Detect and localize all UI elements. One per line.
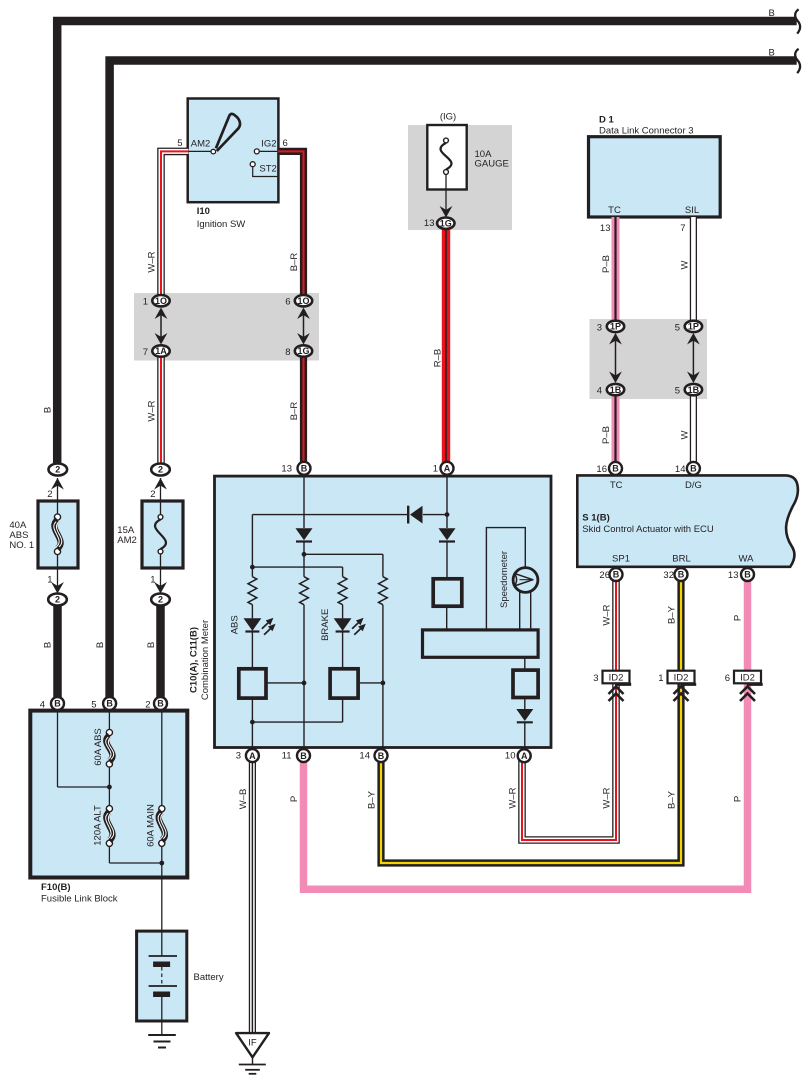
svg-text:ID2: ID2 xyxy=(609,673,624,684)
svg-text:P: P xyxy=(289,796,300,802)
svg-text:W: W xyxy=(679,430,690,439)
svg-text:AM2: AM2 xyxy=(191,139,211,150)
svg-text:W–R: W–R xyxy=(508,787,519,808)
svg-text:Fusible Link Block: Fusible Link Block xyxy=(41,894,118,905)
svg-text:32: 32 xyxy=(663,570,674,581)
svg-text:4: 4 xyxy=(40,700,45,711)
svg-text:B–R: B–R xyxy=(289,402,300,421)
svg-text:2: 2 xyxy=(55,465,60,475)
svg-text:B: B xyxy=(744,570,751,580)
svg-text:A: A xyxy=(249,751,256,761)
svg-text:I10: I10 xyxy=(197,206,210,217)
svg-text:2: 2 xyxy=(55,595,60,605)
svg-text:Data Link Connector 3: Data Link Connector 3 xyxy=(599,126,694,137)
svg-text:1G: 1G xyxy=(297,346,309,356)
svg-text:2: 2 xyxy=(158,595,163,605)
svg-text:B: B xyxy=(106,699,113,709)
svg-text:B–Y: B–Y xyxy=(367,790,378,809)
svg-text:B: B xyxy=(146,642,157,648)
svg-text:B: B xyxy=(301,464,308,474)
svg-text:1B: 1B xyxy=(610,385,622,395)
svg-text:Combination Meter: Combination Meter xyxy=(200,620,211,700)
svg-text:2: 2 xyxy=(145,700,150,711)
svg-text:2: 2 xyxy=(158,465,163,475)
svg-text:C10(A), C11(B): C10(A), C11(B) xyxy=(189,627,200,693)
svg-text:1: 1 xyxy=(433,464,438,475)
svg-text:B: B xyxy=(95,642,106,648)
svg-text:W–R: W–R xyxy=(602,604,613,625)
svg-text:6: 6 xyxy=(283,138,288,149)
svg-text:7: 7 xyxy=(680,223,685,234)
svg-text:1G: 1G xyxy=(440,218,452,228)
svg-text:SIL: SIL xyxy=(685,205,699,216)
svg-text:3: 3 xyxy=(593,673,598,684)
svg-text:B–Y: B–Y xyxy=(667,605,678,624)
svg-text:W–R: W–R xyxy=(147,400,158,421)
svg-text:1P: 1P xyxy=(610,322,621,332)
svg-text:TC: TC xyxy=(608,205,621,216)
svg-text:10: 10 xyxy=(505,751,516,762)
svg-text:R–B: R–B xyxy=(433,349,444,367)
svg-text:BRL: BRL xyxy=(672,554,690,565)
svg-text:Battery: Battery xyxy=(194,972,224,983)
svg-text:B: B xyxy=(769,48,775,59)
svg-text:13: 13 xyxy=(424,218,435,229)
svg-text:B: B xyxy=(678,570,685,580)
svg-text:P: P xyxy=(733,796,744,802)
svg-text:7: 7 xyxy=(143,347,148,358)
svg-text:1: 1 xyxy=(658,673,663,684)
svg-text:TC: TC xyxy=(610,480,623,491)
svg-text:5: 5 xyxy=(675,322,680,333)
svg-text:13: 13 xyxy=(600,223,611,234)
svg-text:IG2: IG2 xyxy=(261,139,276,150)
svg-text:B: B xyxy=(690,464,697,474)
svg-text:B: B xyxy=(378,751,385,761)
svg-text:ID2: ID2 xyxy=(674,673,689,684)
svg-text:60A MAIN: 60A MAIN xyxy=(145,804,156,847)
svg-text:60A ABS: 60A ABS xyxy=(93,728,104,766)
svg-text:P–B: P–B xyxy=(601,255,612,273)
svg-text:13: 13 xyxy=(281,464,292,475)
svg-text:Skid Control Actuator with ECU: Skid Control Actuator with ECU xyxy=(582,524,714,535)
svg-text:S 1(B): S 1(B) xyxy=(582,513,609,524)
svg-text:5: 5 xyxy=(91,700,96,711)
svg-text:AM2: AM2 xyxy=(117,535,137,546)
svg-text:5: 5 xyxy=(177,138,182,149)
svg-text:ABS: ABS xyxy=(230,615,241,634)
svg-text:B: B xyxy=(43,407,54,413)
svg-text:B: B xyxy=(769,8,775,19)
svg-text:120A ALT: 120A ALT xyxy=(92,805,103,846)
svg-text:6: 6 xyxy=(725,673,730,684)
svg-text:Speedometer: Speedometer xyxy=(499,551,510,608)
svg-text:2: 2 xyxy=(47,489,52,500)
svg-text:13: 13 xyxy=(728,570,739,581)
svg-text:B: B xyxy=(54,699,61,709)
svg-text:(IG): (IG) xyxy=(440,112,456,123)
svg-text:1A: 1A xyxy=(155,346,167,356)
svg-text:W–R: W–R xyxy=(602,787,613,808)
svg-text:1: 1 xyxy=(150,575,155,586)
svg-text:3: 3 xyxy=(236,751,241,762)
svg-text:6: 6 xyxy=(285,297,290,308)
svg-text:P: P xyxy=(733,615,744,621)
svg-text:1B: 1B xyxy=(688,385,700,395)
svg-text:B–Y: B–Y xyxy=(667,790,678,809)
svg-text:8: 8 xyxy=(285,347,290,358)
svg-text:ST2: ST2 xyxy=(259,164,276,175)
svg-text:1: 1 xyxy=(143,297,148,308)
svg-text:NO. 1: NO. 1 xyxy=(9,540,34,551)
svg-text:11: 11 xyxy=(282,751,292,762)
svg-text:26: 26 xyxy=(599,570,610,581)
svg-text:4: 4 xyxy=(597,386,602,397)
svg-text:W–B: W–B xyxy=(238,789,249,810)
svg-text:B–R: B–R xyxy=(289,253,300,272)
svg-text:A: A xyxy=(521,751,528,761)
svg-text:P–B: P–B xyxy=(601,426,612,444)
svg-text:Ignition SW: Ignition SW xyxy=(197,219,246,230)
svg-text:W–R: W–R xyxy=(147,251,158,272)
svg-text:WA: WA xyxy=(739,554,755,565)
svg-text:GAUGE: GAUGE xyxy=(475,158,509,169)
svg-text:B: B xyxy=(43,642,54,648)
svg-text:1O: 1O xyxy=(297,296,309,306)
svg-text:5: 5 xyxy=(675,386,680,397)
svg-text:D 1: D 1 xyxy=(599,115,615,126)
svg-text:F10(B): F10(B) xyxy=(41,882,71,893)
svg-text:W: W xyxy=(679,260,690,269)
svg-text:SP1: SP1 xyxy=(612,554,630,565)
svg-text:IF: IF xyxy=(248,1038,257,1049)
svg-text:14: 14 xyxy=(359,751,370,762)
svg-text:B: B xyxy=(613,570,620,580)
svg-text:2: 2 xyxy=(150,489,155,500)
svg-text:B: B xyxy=(612,464,619,474)
svg-text:A: A xyxy=(444,464,451,474)
svg-text:14: 14 xyxy=(675,464,686,475)
svg-text:D/G: D/G xyxy=(685,480,702,491)
svg-text:B: B xyxy=(157,699,164,709)
svg-text:1P: 1P xyxy=(688,322,699,332)
svg-text:1O: 1O xyxy=(155,296,167,306)
svg-text:BRAKE: BRAKE xyxy=(320,609,331,641)
svg-text:1: 1 xyxy=(47,575,52,586)
svg-text:ID2: ID2 xyxy=(740,673,755,684)
svg-text:3: 3 xyxy=(597,322,602,333)
svg-text:B: B xyxy=(300,751,307,761)
svg-text:16: 16 xyxy=(596,464,607,475)
